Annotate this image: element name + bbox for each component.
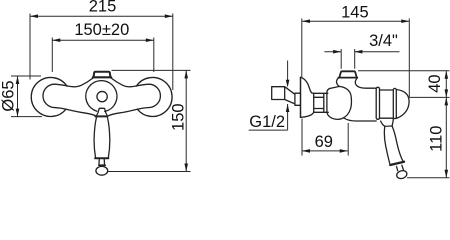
side port neck left <box>337 78 340 87</box>
wall union square fitting <box>272 87 285 100</box>
side port flange <box>339 71 356 77</box>
baluster bottom disc <box>95 157 108 159</box>
arrow 40 top <box>445 71 449 79</box>
dim 215 ext right <box>172 14 174 91</box>
body contour bottom-left <box>54 108 96 116</box>
arrow 145 left <box>302 19 310 23</box>
svg-text:215: 215 <box>89 0 117 15</box>
side handle ball <box>396 169 408 179</box>
side handle bell <box>381 118 394 126</box>
baluster left side <box>94 118 96 158</box>
cap ring 1 <box>376 87 379 119</box>
side baluster right <box>392 126 403 162</box>
dim 3/4 line right tail <box>354 51 399 53</box>
dim 69 line <box>302 150 348 152</box>
dim 150 ext bottom <box>108 171 191 173</box>
side handle waist <box>397 165 404 171</box>
dim 150±20 line <box>52 39 154 41</box>
dim 3/4 ext left <box>340 49 342 69</box>
escutcheon rim <box>300 77 302 117</box>
side port neck right / barrel top <box>355 78 376 88</box>
body contour bottom-right <box>109 108 150 116</box>
handle waist <box>99 159 104 164</box>
barrel bottom <box>344 118 376 121</box>
union cone taper <box>285 87 295 104</box>
svg-text:G1/2: G1/2 <box>249 113 285 131</box>
side baluster left <box>384 126 390 164</box>
svg-text:Ø65: Ø65 <box>0 80 18 111</box>
dim Ø65 line <box>17 76 19 117</box>
arrow 150 bottom <box>184 164 188 172</box>
arrow 145 right <box>401 19 409 23</box>
left valve cap inner U <box>43 84 54 107</box>
escutcheon bell top <box>301 77 314 93</box>
arrow 215 right <box>165 14 173 18</box>
arrow 150 top <box>184 70 188 78</box>
dim 145 line <box>302 20 409 22</box>
dim 150±20 ext left <box>51 38 53 73</box>
top port front base flange <box>93 76 112 78</box>
side baluster bottom disc <box>390 162 404 165</box>
arrow 150±20 right <box>146 38 154 42</box>
side port flange base <box>338 77 357 79</box>
handle collar <box>99 164 105 166</box>
arrow 3/4 left (pointing right) <box>333 50 341 54</box>
svg-text:150: 150 <box>169 103 187 131</box>
cap dome <box>397 90 410 119</box>
dim 40/110 shared ext <box>409 96 449 98</box>
dim 145 ext right <box>408 19 410 98</box>
boss inner circle <box>97 91 107 101</box>
center boss circle <box>86 81 117 112</box>
arrow 150±20 left <box>52 38 60 42</box>
dim 215 line <box>30 15 173 17</box>
svg-text:110: 110 <box>428 126 446 152</box>
handle ball <box>96 166 108 175</box>
dim 145 ext left <box>301 19 303 78</box>
arrow 69 left <box>302 149 310 153</box>
arrow G1/2 down <box>286 80 290 88</box>
G1/2 leader top <box>287 61 289 82</box>
svg-text:150±20: 150±20 <box>74 21 129 39</box>
svg-text:3/4": 3/4" <box>369 32 398 50</box>
hex nut <box>314 93 329 112</box>
arrow 69 right <box>340 149 348 153</box>
body contour top-right <box>111 78 150 87</box>
dim 150 line (front right) <box>185 70 187 171</box>
cap ring 2 <box>393 88 396 118</box>
right escutcheon rose circle <box>136 77 172 116</box>
baluster right side <box>108 118 110 158</box>
svg-text:40: 40 <box>426 74 444 92</box>
body contour top-left <box>54 78 94 87</box>
left escutcheon rose circle <box>31 77 67 116</box>
dim 215 ext left <box>29 14 31 80</box>
dim 150 ext top <box>112 69 191 71</box>
G1/2 underline <box>249 129 288 131</box>
dim Ø65 ext top <box>11 75 41 77</box>
dim 69 ext left <box>301 119 303 156</box>
dim 110 line <box>445 97 447 177</box>
arrow 110 bottom <box>445 170 449 178</box>
arrow 40 bottom <box>445 89 449 97</box>
dim 3/4 ext right <box>354 49 356 69</box>
dim 40 ext top <box>358 70 450 72</box>
dim 3/4 line left tail <box>324 51 341 53</box>
arrow Ø65 top <box>16 76 20 84</box>
handle bell <box>97 108 108 115</box>
side handle bell neck line <box>385 125 392 127</box>
arrow G1/2 up <box>286 104 290 112</box>
dim 150±20 ext right <box>153 38 155 73</box>
svg-text:145: 145 <box>341 3 369 21</box>
svg-text:69: 69 <box>315 133 333 151</box>
arrow 3/4 right (pointing left) <box>354 50 362 54</box>
dim 69 ext right <box>347 123 349 156</box>
arrowheads <box>16 14 448 177</box>
top port front outline <box>94 72 111 77</box>
body ball <box>327 86 352 119</box>
dim 110 ext bottom <box>407 177 450 179</box>
escutcheon bell bottom <box>301 112 314 117</box>
arrow Ø65 bottom <box>16 109 20 117</box>
G1/2 leader up <box>287 104 289 130</box>
arrow 110 top <box>445 97 449 105</box>
dim Ø65 ext bottom <box>11 116 42 118</box>
handle flange bar <box>95 115 107 117</box>
arrow 215 left <box>30 14 38 18</box>
union cylinder <box>295 93 301 105</box>
right valve cap inner U <box>150 84 161 107</box>
dim 40 line <box>445 71 447 98</box>
cap barrel 2 <box>380 90 394 118</box>
